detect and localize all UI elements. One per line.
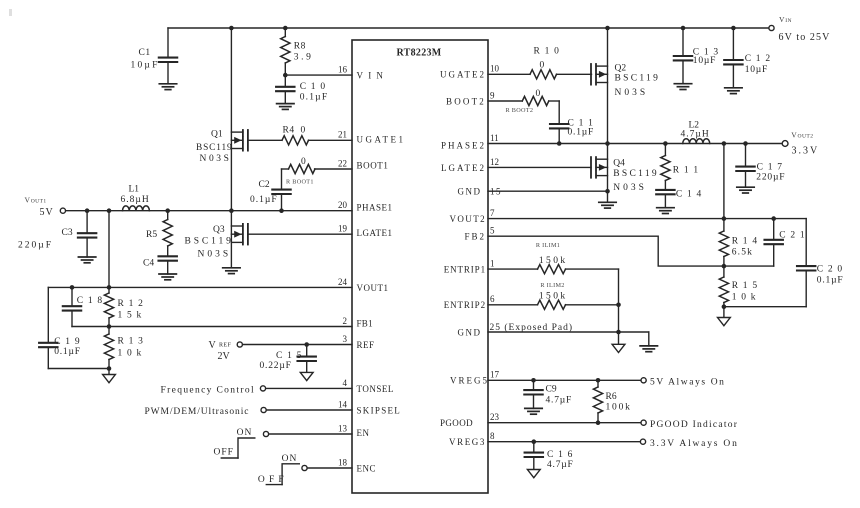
- svg-text:C 1 0: C 1 0: [300, 82, 327, 92]
- svg-text:Q2: Q2: [615, 63, 627, 73]
- svg-text:18: 18: [338, 457, 348, 467]
- svg-text:R 1 0: R 1 0: [534, 47, 561, 57]
- svg-text:TONSEL: TONSEL: [357, 384, 394, 394]
- pin 19 LGATE1: [338, 224, 393, 238]
- node ENC switch: [258, 454, 352, 485]
- wire L2 output down to VOUT2 rail: [722, 141, 727, 218]
- capacitor C15: [260, 342, 316, 372]
- terminal 5V Always On: [641, 378, 726, 388]
- scan artifact mark top-left corner: [9, 9, 12, 16]
- wire FB1 rail to pin 2: [72, 324, 352, 329]
- svg-text:14: 14: [338, 399, 348, 409]
- pin 3 REF: [343, 334, 375, 350]
- ground exposed pad earth: [640, 332, 657, 352]
- pin 2 FB1: [343, 316, 373, 329]
- wire FB2 jog: [488, 236, 774, 266]
- svg-text:BOOT2: BOOT2: [446, 96, 486, 106]
- svg-text:PWM/DEM/Ultrasonic: PWM/DEM/Ultrasonic: [145, 407, 250, 417]
- svg-text:10µF: 10µF: [693, 56, 716, 66]
- terminal V_OUT1: [60, 208, 65, 213]
- svg-text:Frequency Control: Frequency Control: [161, 386, 255, 396]
- svg-text:ON: ON: [282, 454, 298, 464]
- pin 9 BOOT2: [446, 90, 495, 106]
- terminal V_IN: [769, 25, 774, 30]
- ground C16 triangle: [527, 470, 540, 478]
- svg-text:V: V: [25, 196, 31, 205]
- resistor R8: [281, 26, 314, 75]
- node label V_OUT1 5V: [25, 196, 54, 218]
- terminal 3.3V Always On: [640, 439, 738, 449]
- svg-text:ON: ON: [237, 428, 253, 438]
- svg-text:220µF: 220µF: [18, 241, 53, 251]
- svg-text:REF: REF: [219, 343, 231, 349]
- svg-text:Q4: Q4: [613, 158, 625, 168]
- svg-text:6.5k: 6.5k: [732, 248, 753, 258]
- svg-text:R 1 2: R 1 2: [118, 299, 145, 309]
- svg-text:C 1 2: C 1 2: [745, 54, 772, 64]
- svg-text:GND: GND: [458, 187, 482, 197]
- svg-text:220µF: 220µF: [756, 172, 785, 182]
- svg-text:N03S: N03S: [613, 183, 647, 193]
- pin 5 FB2: [464, 226, 495, 242]
- svg-text:Q1: Q1: [211, 130, 223, 140]
- svg-text:0.1µF: 0.1µF: [250, 195, 278, 205]
- pin 7 VOUT2: [450, 208, 496, 224]
- ground C15 triangle: [300, 372, 313, 380]
- svg-text:2: 2: [343, 316, 348, 326]
- svg-text:3.9: 3.9: [294, 53, 314, 63]
- svg-text:5V Always On: 5V Always On: [650, 378, 726, 388]
- svg-text:0.1µF: 0.1µF: [300, 93, 329, 103]
- ground Q3 source: [223, 268, 240, 274]
- svg-text:VOUT1: VOUT1: [357, 283, 389, 293]
- svg-text:FB1: FB1: [357, 319, 373, 329]
- pin 25 GND exposed pad: [458, 322, 574, 337]
- pin 11 PHASE2: [441, 133, 499, 151]
- svg-text:20: 20: [338, 200, 348, 210]
- svg-text:100k: 100k: [606, 402, 632, 412]
- resistor R5: [146, 208, 172, 256]
- svg-text:3.3V Always On: 3.3V Always On: [650, 439, 739, 449]
- capacitor C21: [765, 216, 806, 266]
- svg-text:6: 6: [490, 294, 495, 304]
- resistor R15 10k: [719, 266, 758, 307]
- svg-text:R BOOT2: R BOOT2: [506, 107, 534, 114]
- svg-text:12: 12: [490, 157, 499, 167]
- ground C9: [525, 408, 542, 414]
- svg-text:BSC119: BSC119: [613, 169, 659, 179]
- svg-text:2V: 2V: [218, 351, 231, 362]
- ground C14: [657, 208, 674, 214]
- svg-text:IN: IN: [785, 18, 792, 24]
- pin 17 VREG5: [450, 370, 500, 386]
- pin 12 LGATE2: [488, 166, 591, 168]
- terminal PGOOD Indicator: [641, 420, 738, 430]
- capacitor C14: [656, 189, 702, 207]
- pin 21 UGATE1: [338, 130, 406, 145]
- svg-text:1 0 k: 1 0 k: [118, 348, 143, 358]
- pin 1 ENTRIP1: [444, 259, 495, 275]
- wire VREG3 pin 8: [488, 441, 640, 443]
- svg-text:10µF: 10µF: [745, 65, 768, 75]
- capacitor C17: [736, 141, 785, 187]
- svg-text:R 1 1: R 1 1: [673, 166, 700, 176]
- svg-text:6V to 25V: 6V to 25V: [779, 32, 831, 43]
- ground exposed pad triangle: [612, 344, 625, 352]
- pin 18 ENC: [338, 457, 376, 473]
- svg-text:L1: L1: [129, 184, 140, 194]
- wire ENTRIP column down: [616, 269, 621, 332]
- svg-text:GND: GND: [458, 327, 482, 337]
- svg-text:V: V: [791, 130, 797, 139]
- svg-text:4: 4: [343, 378, 348, 388]
- pin 8 VREG3: [449, 431, 495, 447]
- svg-text:PHASE2: PHASE2: [441, 141, 486, 151]
- svg-text:150k: 150k: [539, 256, 568, 266]
- resistor R_BOOT1 0 ohm: [282, 157, 353, 185]
- svg-text:10: 10: [490, 64, 500, 74]
- svg-text:7: 7: [490, 208, 495, 218]
- svg-text:R6: R6: [606, 392, 617, 402]
- ground C17: [737, 187, 754, 193]
- wire PHASE1 / VOUT1 rail: [66, 210, 352, 212]
- capacitor C19: [39, 287, 81, 368]
- transistor Q3 BSC119N03S: [185, 208, 248, 267]
- node EN switch: [214, 428, 353, 458]
- svg-text:R5: R5: [146, 230, 157, 240]
- svg-text:17: 17: [490, 370, 500, 380]
- ground C1: [159, 84, 176, 90]
- resistor R13 10k: [104, 327, 144, 369]
- pin 24 VOUT1: [338, 277, 389, 293]
- capacitor C16: [525, 439, 574, 469]
- svg-text:25 (Exposed Pad): 25 (Exposed Pad): [490, 322, 574, 333]
- svg-text:8: 8: [490, 431, 495, 441]
- svg-text:R ILIM2: R ILIM2: [540, 282, 564, 289]
- resistor R14 6.5k: [719, 219, 758, 267]
- pin 4 TONSEL: [343, 378, 394, 394]
- svg-text:C 1 6: C 1 6: [547, 450, 574, 460]
- junction FB2 R14 bottom: [722, 264, 727, 269]
- svg-text:23: 23: [490, 412, 500, 422]
- svg-text:1 5 k: 1 5 k: [118, 310, 143, 320]
- svg-text:0.1µF: 0.1µF: [568, 127, 595, 137]
- svg-text:PGOOD: PGOOD: [440, 418, 473, 428]
- ground R13 triangle: [103, 375, 116, 383]
- wire R13 bottom to C19 bottom: [48, 366, 111, 374]
- svg-text:11: 11: [490, 133, 499, 143]
- svg-text:N03S: N03S: [198, 250, 232, 260]
- capacitor C2: [250, 169, 291, 211]
- svg-text:9: 9: [490, 90, 495, 100]
- pin 20 PHASE1: [338, 200, 393, 213]
- pin 13 EN: [338, 423, 370, 438]
- svg-text:R ILIM1: R ILIM1: [536, 242, 560, 249]
- svg-text:C 1 9: C 1 9: [54, 337, 81, 347]
- node label V_REF 2V: [209, 340, 232, 362]
- wire VIN rail: [168, 27, 769, 29]
- wire R8 to pin 16: [283, 73, 352, 78]
- svg-text:V: V: [779, 15, 785, 24]
- svg-text:C 1 8: C 1 8: [77, 296, 104, 306]
- ground Q4 source: [599, 202, 616, 208]
- svg-text:OUT1: OUT1: [31, 199, 47, 205]
- ground C13: [674, 84, 691, 90]
- wire VOUT1 feedback rail to pin 24: [48, 285, 352, 290]
- svg-text:ENTRIP1: ENTRIP1: [444, 265, 486, 275]
- svg-text:3: 3: [343, 334, 348, 344]
- svg-text:LGATE2: LGATE2: [441, 163, 486, 173]
- svg-text:0.22µF: 0.22µF: [260, 361, 292, 371]
- resistor R_ILIM1 150k: [488, 242, 619, 274]
- svg-text:BSC119: BSC119: [615, 73, 661, 83]
- svg-text:6.8µH: 6.8µH: [121, 195, 150, 205]
- svg-text:FB2: FB2: [464, 232, 486, 242]
- junction C2 bottom on phase rail: [279, 208, 284, 213]
- svg-text:N03S: N03S: [200, 154, 232, 164]
- svg-text:19: 19: [338, 224, 348, 234]
- svg-text:22: 22: [338, 158, 347, 168]
- wire REF to pin 3: [243, 344, 352, 346]
- transistor Q4 BSC119N03S: [591, 144, 659, 194]
- svg-text:ENC: ENC: [357, 463, 377, 473]
- resistor R4 0 ohm: [248, 126, 352, 145]
- svg-text:0: 0: [536, 89, 541, 99]
- resistor R_ILIM2 150k: [488, 282, 619, 309]
- svg-text:R 1 4: R 1 4: [732, 237, 759, 247]
- node label V_OUT2 3.3V: [791, 130, 819, 156]
- svg-text:R BOOT1: R BOOT1: [286, 178, 314, 185]
- svg-text:OFF: OFF: [258, 475, 288, 485]
- svg-text:C 2 1: C 2 1: [779, 231, 806, 241]
- svg-text:0.1µF: 0.1µF: [54, 347, 81, 357]
- node PWM/DEM/Ultrasonic / SKIPSEL: [145, 407, 353, 417]
- node Frequency Control / TONSEL: [161, 386, 353, 396]
- svg-text:OUT2: OUT2: [798, 133, 814, 139]
- resistor R6 100k: [593, 378, 631, 423]
- svg-text:0.1µF: 0.1µF: [817, 275, 844, 285]
- svg-text:R 1 3: R 1 3: [118, 336, 145, 346]
- ground R15 triangle: [718, 318, 731, 326]
- ground C12: [725, 88, 742, 94]
- svg-text:EN: EN: [357, 428, 370, 438]
- svg-text:REF: REF: [357, 340, 375, 350]
- wire VREG5 pin 17: [488, 379, 641, 381]
- svg-text:15: 15: [490, 187, 502, 197]
- svg-text:150k: 150k: [539, 292, 568, 302]
- capacitor C20: [797, 219, 843, 307]
- svg-text:C 1 5: C 1 5: [276, 351, 303, 361]
- svg-text:LGATE1: LGATE1: [357, 228, 393, 238]
- svg-text:SKIPSEL: SKIPSEL: [357, 405, 402, 415]
- wire VIN rail to Q1 drain column: [229, 26, 234, 211]
- svg-text:21: 21: [338, 130, 347, 140]
- resistor R_BOOT2 0 ohm: [488, 89, 559, 114]
- svg-text:5: 5: [490, 226, 495, 236]
- svg-text:13: 13: [338, 423, 348, 433]
- ground C4: [159, 274, 176, 280]
- svg-text:UGATE2: UGATE2: [440, 70, 486, 80]
- svg-text:0: 0: [540, 61, 545, 71]
- svg-text:1: 1: [490, 259, 495, 269]
- wire R15 bottom to C20 bottom: [722, 304, 807, 317]
- wire Q3 gate to pin 19: [248, 233, 352, 235]
- capacitor C1: [131, 28, 178, 84]
- svg-text:C2: C2: [259, 180, 270, 190]
- svg-text:V: V: [209, 340, 217, 351]
- wire PHASE2 rail: [488, 141, 782, 146]
- capacitor C9: [524, 378, 572, 408]
- svg-text:RT8223M: RT8223M: [396, 48, 441, 59]
- svg-text:C 2 0: C 2 0: [817, 265, 844, 275]
- svg-text:VREG5: VREG5: [450, 376, 489, 386]
- svg-text:VOUT2: VOUT2: [450, 214, 487, 224]
- svg-text:VREG3: VREG3: [449, 437, 486, 447]
- capacitor C10: [276, 75, 328, 104]
- inductor L1 6.8uH: [121, 184, 150, 210]
- wire Q2 drain column from rail: [605, 26, 610, 144]
- svg-text:C1: C1: [139, 48, 151, 58]
- svg-text:5V: 5V: [40, 207, 54, 218]
- svg-text:OFF: OFF: [214, 448, 234, 458]
- svg-text:R4: R4: [283, 126, 295, 136]
- ground C10: [277, 104, 294, 110]
- svg-text:C3: C3: [62, 228, 73, 238]
- svg-text:16: 16: [338, 65, 348, 75]
- svg-text:UGATE1: UGATE1: [357, 134, 406, 144]
- capacitor C18: [63, 285, 104, 326]
- pin 23 PGOOD: [440, 412, 500, 428]
- pin 6 ENTRIP2: [444, 294, 495, 310]
- terminal V_OUT2: [782, 141, 788, 147]
- capacitor C4: [143, 256, 177, 274]
- capacitor C11: [550, 101, 594, 144]
- inductor L2 4.7uH: [681, 120, 710, 143]
- svg-text:C4: C4: [143, 259, 154, 269]
- svg-text:BSC119: BSC119: [185, 237, 234, 247]
- IC U1 RT8223M controller body: [352, 40, 488, 493]
- svg-text:4.7µF: 4.7µF: [546, 395, 573, 405]
- svg-text:4.7µH: 4.7µH: [681, 130, 710, 140]
- resistor R10 0 ohm: [488, 47, 592, 79]
- terminal V_REF: [237, 342, 242, 347]
- transistor Q1 BSC119N03S: [196, 130, 248, 165]
- svg-text:R8: R8: [294, 41, 306, 51]
- svg-text:0: 0: [301, 157, 306, 167]
- svg-text:PGOOD Indicator: PGOOD Indicator: [650, 420, 738, 430]
- wire VOUT1 sense tap down: [107, 208, 112, 287]
- pin 22 BOOT1: [338, 158, 389, 170]
- wire PGOOD pin 23: [488, 420, 641, 425]
- resistor R11: [661, 141, 700, 190]
- svg-text:BSC119: BSC119: [196, 143, 233, 153]
- capacitor C3: [18, 208, 96, 257]
- svg-text:4.7µF: 4.7µF: [547, 460, 574, 470]
- svg-text:1 0 k: 1 0 k: [732, 292, 757, 302]
- transistor Q2 BSC119N03S: [591, 63, 660, 98]
- pin 14 SKIPSEL: [338, 399, 401, 415]
- pin 15 GND wire: [488, 189, 610, 202]
- wire GND exposed pad pin 25: [488, 330, 649, 345]
- svg-text:ENTRIP2: ENTRIP2: [444, 300, 486, 310]
- svg-text:10µF: 10µF: [131, 61, 160, 71]
- svg-text:3.3V: 3.3V: [792, 146, 820, 157]
- svg-text:PHASE1: PHASE1: [357, 203, 393, 213]
- svg-text:C9: C9: [546, 385, 557, 395]
- wire VOUT2 rail pin 7: [488, 216, 806, 221]
- pin 10 UGATE2: [440, 64, 500, 80]
- svg-text:N03S: N03S: [615, 88, 649, 98]
- svg-text:24: 24: [338, 277, 348, 287]
- capacitor C12: [724, 26, 771, 88]
- resistor R12 15k: [104, 287, 144, 326]
- svg-text:Q3: Q3: [213, 225, 225, 235]
- svg-text:BOOT1: BOOT1: [357, 160, 389, 170]
- node label V_IN 6V to 25V: [779, 15, 831, 43]
- capacitor C13: [674, 26, 720, 84]
- svg-text:0: 0: [301, 126, 306, 136]
- svg-text:C 1 4: C 1 4: [676, 189, 703, 199]
- ground C3: [78, 257, 95, 263]
- svg-text:VIN: VIN: [357, 71, 389, 81]
- svg-text:R 1 5: R 1 5: [732, 281, 759, 291]
- svg-text:C 1 7: C 1 7: [757, 162, 784, 172]
- pin 16 VIN: [338, 65, 388, 81]
